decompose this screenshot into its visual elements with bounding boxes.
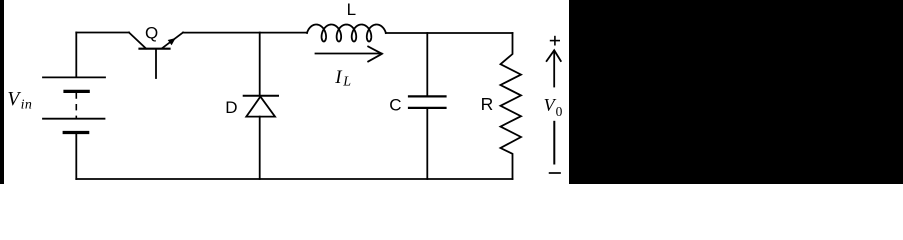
wire V0 lower line [553,122,555,164]
svg-text:D: D [225,98,237,117]
svg-text:L: L [347,0,356,19]
transistor Q1 emitter arrowhead [168,38,176,45]
arrow V0 open head [547,50,561,61]
wire bottom rail [76,178,512,180]
inductor L coil [307,25,386,42]
battery V_in cell2 long plate [43,118,105,120]
capacitor C top plate [409,95,446,97]
svg-text:0: 0 [556,104,563,119]
wire battery bottom lead [75,135,77,180]
left black edge strip [0,0,4,184]
svg-text:R: R [481,94,494,114]
arrow V0 up shaft [553,51,555,87]
battery V_in cell2 short thick plate [64,131,88,134]
svg-text:in: in [21,98,33,113]
svg-text:L: L [342,75,351,90]
battery V_in cell1 long plate [43,76,105,78]
battery dashed center link [75,93,77,117]
svg-text:V: V [7,89,21,110]
wire top rail left (battery to transistor collector) [76,32,129,34]
resistor R zigzag [501,33,522,179]
transistor Q1 base bar [140,48,170,50]
transistor Q1 base lead down [155,49,157,78]
capacitor C bottom plate [409,107,446,109]
wire capacitor bottom lead [426,109,428,180]
wire diode top lead [259,33,261,96]
wire capacitor top lead [426,33,428,96]
svg-text:Q: Q [145,23,158,42]
arrow I_L open head [368,47,382,62]
transistor Q1 emitter diagonal [162,33,183,49]
svg-text:C: C [389,95,401,114]
minus sign below V0 [550,172,560,174]
right black mask band [569,0,903,184]
plus sign above V0 [551,40,560,42]
battery V_in cell1 short thick plate [65,90,88,93]
wire diode bottom lead [259,117,261,179]
diode D cathode bar [244,95,278,97]
diode D triangle (anode, pointing up) [246,97,275,117]
wire battery top lead [75,33,77,78]
wire top rail inductor to resistor corner [386,32,513,34]
arrow I_L shaft [316,53,382,55]
wire top rail from emitter to inductor [183,32,307,34]
transistor Q1 collector diagonal [129,33,146,49]
